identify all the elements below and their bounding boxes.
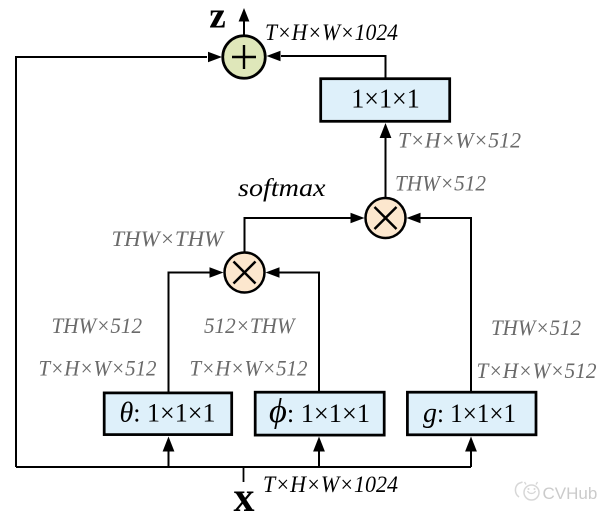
svg-text:softmax: softmax: [238, 175, 326, 202]
svg-text:THW×512: THW×512: [395, 171, 486, 196]
matmul node M1 (circled times, upper): [366, 198, 406, 238]
svg-text:CVHub: CVHub: [543, 484, 598, 503]
conv box phi: 1x1x1: [255, 392, 384, 435]
arrowhead into add node (left): [208, 52, 222, 62]
wire: matmul M2 up then right into matmul node M1 (softmax path): [245, 218, 352, 252]
svg-text:THW×THW: THW×THW: [112, 226, 225, 251]
wire: g box up then left into matmul node M1: [420, 218, 471, 392]
matmul node M2 (circled times, lower): [225, 253, 265, 293]
wire: left feedback vertical + horizontal into add node: [16, 57, 207, 467]
wire: bus up into g box: [470, 450, 472, 467]
svg-text:512×THW: 512×THW: [204, 313, 296, 338]
svg-text:THW×512: THW×512: [52, 313, 143, 338]
svg-text:T×H×W×512: T×H×W×512: [190, 356, 308, 381]
conv box theta: 1x1x1: [104, 393, 232, 435]
svg-text:T×H×W×1024: T×H×W×1024: [263, 472, 398, 497]
wire: matmul M1 up into 1x1x1 box: [385, 137, 387, 197]
add node (circled plus): [223, 36, 266, 79]
wire: bus up into theta box: [168, 450, 170, 467]
svg-text:ϕ: 1×1×1: ϕ: 1×1×1: [269, 393, 370, 430]
svg-text:THW×512: THW×512: [491, 315, 581, 340]
svg-text:T×H×W×512: T×H×W×512: [39, 356, 157, 381]
svg-text:T×H×W×512: T×H×W×512: [398, 128, 521, 153]
wire: bottom horizontal bus: [16, 466, 471, 468]
svg-text:x: x: [234, 475, 255, 517]
svg-text:T×H×W×1024: T×H×W×1024: [265, 20, 398, 45]
wire: add node up output arrow: [243, 20, 245, 36]
wire: phi box up then left into matmul node M2: [279, 273, 319, 393]
svg-text:z: z: [209, 0, 226, 37]
watermark logo CVHub: [515, 482, 539, 500]
svg-text:θ: 1×1×1: θ: 1×1×1: [120, 398, 216, 429]
conv box g: 1x1x1: [407, 392, 536, 435]
wire: tick down to x label: [243, 467, 245, 482]
conv box U1: 1x1x1: [321, 79, 450, 122]
svg-text:T×H×W×512: T×H×W×512: [477, 358, 597, 383]
svg-text:g: 1×1×1: g: 1×1×1: [423, 397, 516, 429]
svg-text:1×1×1: 1×1×1: [351, 84, 420, 114]
wire: bus up into phi box: [318, 450, 320, 467]
wire: theta box up then right into matmul node M2: [169, 273, 211, 393]
wire: 1x1x1 box up then left into add node: [281, 56, 386, 78]
